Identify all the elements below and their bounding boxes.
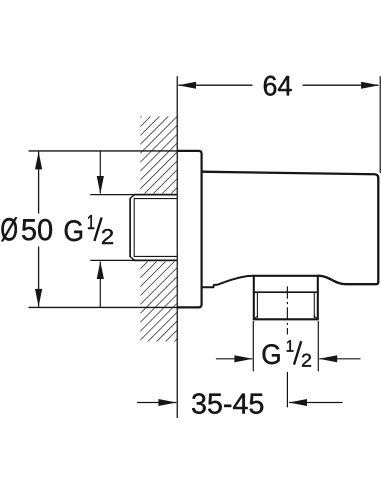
inlet pipe chamfer bottom-left (130, 257, 135, 261)
dim G1/2 outlet: left arrowhead (right-pointing) (234, 355, 252, 362)
dim 35-45: left arrow line (137, 402, 176, 404)
dim G1/2 inlet: label sup 1 (88, 215, 94, 229)
dim O50: label (1, 217, 17, 241)
outlet thread root left (256, 293, 258, 318)
dim G1/2 inlet: top ext line (90, 194, 134, 196)
dim 64: right extension line (379, 76, 381, 173)
dim G1/2 outlet: right arrow line (319, 358, 360, 360)
dim G1/2 inlet: label G (65, 220, 82, 241)
body outline top/right/under-right (202, 172, 379, 285)
dim G1/2 outlet: label sup 1 (287, 340, 294, 351)
dim 35-45: label (192, 393, 263, 414)
inlet pipe outer bottom edge (134, 259, 177, 261)
flange (escutcheon) (177, 151, 202, 308)
inlet pipe outer left edge (129, 198, 131, 257)
dim O50: top extension line (29, 150, 178, 152)
dim 64: dimension line left segment (179, 84, 253, 86)
dim G1/2 outlet: left arrow line (216, 358, 252, 360)
dim G1/2 outlet: label sub 2 (302, 354, 311, 367)
outlet thread root right (313, 293, 315, 318)
dim 35-45: left arrowhead (right-pointing) (158, 399, 176, 406)
dim G1/2 outlet: label G (263, 344, 280, 364)
outlet nipple outer (254, 276, 318, 320)
dim G1/2 inlet: upper arrowhead (down) (97, 176, 104, 194)
dim G1/2 inlet: upper arrow line (99, 151, 101, 194)
dim O50: bottom arrowhead (35, 289, 42, 307)
dim G1/2 inlet: bottom ext line (90, 259, 134, 261)
dim G1/2 inlet: label sub 2 (102, 229, 113, 244)
dim G1/2 outlet: right arrowhead (left-pointing) (319, 355, 337, 362)
dim O50: top arrowhead (35, 152, 42, 170)
inlet pipe thread root lines (134, 199, 176, 257)
wall hatching (138, 112, 180, 346)
dim G1/2 inlet: lower arrowhead (up) (97, 261, 104, 279)
dim O50: dimension line lower segment (38, 247, 40, 307)
outlet centerline (dash-dot) upper part (286, 286, 288, 334)
dim O50: bottom extension line (29, 306, 178, 308)
wall face line (also ext line for 64 and 35-45 dims) (176, 76, 178, 418)
dim 64: right arrowhead (361, 82, 379, 89)
dim 64: label (264, 76, 292, 96)
dim 35-45: right arrowhead (left-pointing) (289, 399, 307, 406)
outlet collar line (253, 291, 319, 293)
inlet pipe chamfer top-left (130, 195, 135, 199)
dim 64: left arrowhead (178, 82, 196, 89)
body underside left with step (202, 276, 254, 288)
dim G1/2 inlet: label slash (94, 218, 101, 242)
inlet pipe outer top edge (134, 194, 177, 196)
dim 64: dimension line right segment (303, 84, 379, 86)
outlet chamfer bottom-right (314, 316, 317, 319)
dim G1/2 inlet: lower arrow line (99, 262, 101, 308)
outlet centerline lower part (286, 372, 288, 407)
outlet chamfer bottom-left (255, 316, 258, 319)
dim G1/2 outlet: left ext line (252, 321, 254, 371)
dim O50: dimension line upper segment (38, 152, 40, 214)
dim 35-45: right arrow line (289, 402, 343, 404)
dim G1/2 outlet: right ext line (317, 321, 319, 371)
dim G1/2 outlet: label slash (294, 341, 301, 364)
inlet pipe white interior (129, 194, 177, 262)
